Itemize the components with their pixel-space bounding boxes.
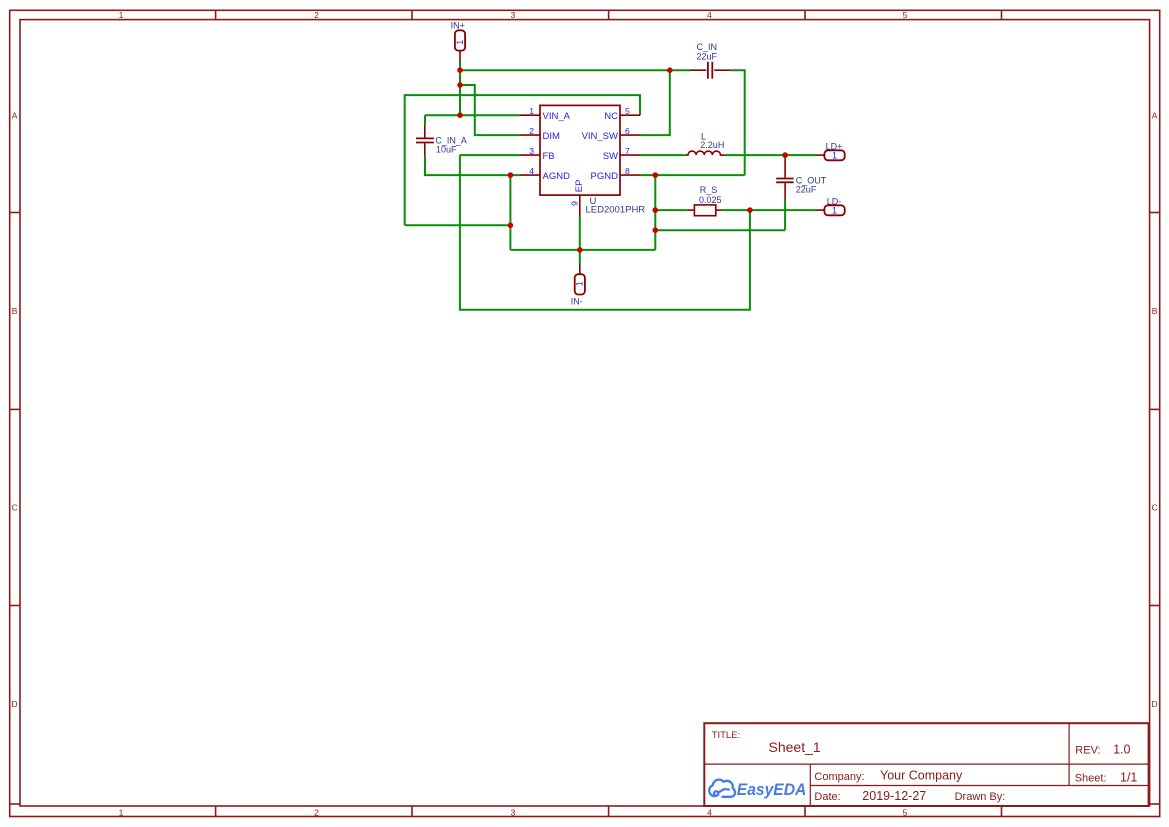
svg-text:22uF: 22uF xyxy=(697,52,718,62)
svg-text:2019-12-27: 2019-12-27 xyxy=(862,789,926,803)
svg-text:Sheet_1: Sheet_1 xyxy=(769,739,821,755)
svg-text:3: 3 xyxy=(529,146,534,156)
svg-text:9: 9 xyxy=(569,201,579,206)
svg-text:10uF: 10uF xyxy=(436,145,457,155)
svg-text:4: 4 xyxy=(529,166,534,176)
svg-text:Date:: Date: xyxy=(814,791,840,803)
svg-text:C: C xyxy=(1152,503,1158,513)
svg-text:1/1: 1/1 xyxy=(1120,770,1137,784)
svg-text:PGND: PGND xyxy=(591,171,619,182)
svg-text:5: 5 xyxy=(625,106,630,116)
svg-text:D: D xyxy=(1152,699,1158,709)
svg-text:VIN_SW: VIN_SW xyxy=(582,131,618,142)
svg-text:4: 4 xyxy=(707,807,712,817)
svg-text:REV:: REV: xyxy=(1075,745,1100,757)
svg-text:3: 3 xyxy=(511,10,516,20)
svg-text:1: 1 xyxy=(455,40,465,45)
svg-text:B: B xyxy=(12,306,18,316)
svg-text:4: 4 xyxy=(707,10,712,20)
svg-text:LED2001PHR: LED2001PHR xyxy=(586,205,646,216)
svg-text:1: 1 xyxy=(119,807,124,817)
svg-text:A: A xyxy=(12,111,18,121)
svg-text:DIM: DIM xyxy=(543,131,561,142)
svg-text:IN+: IN+ xyxy=(451,21,465,31)
svg-text:EP: EP xyxy=(574,180,585,193)
svg-text:AGND: AGND xyxy=(543,171,571,182)
svg-text:IN-: IN- xyxy=(571,297,583,307)
svg-text:Company:: Company: xyxy=(814,771,864,783)
svg-text:2: 2 xyxy=(314,10,319,20)
svg-text:SW: SW xyxy=(603,151,618,162)
svg-text:1: 1 xyxy=(832,151,837,161)
svg-text:VIN_A: VIN_A xyxy=(543,111,571,122)
svg-text:C: C xyxy=(12,503,18,513)
svg-text:2: 2 xyxy=(314,807,319,817)
svg-text:22uF: 22uF xyxy=(796,185,817,195)
svg-text:R_S: R_S xyxy=(700,185,718,195)
svg-text:8: 8 xyxy=(625,166,630,176)
svg-text:1: 1 xyxy=(832,206,837,216)
svg-text:0.025: 0.025 xyxy=(699,195,722,205)
svg-text:3: 3 xyxy=(511,807,516,817)
svg-text:B: B xyxy=(1152,306,1158,316)
svg-text:Sheet:: Sheet: xyxy=(1075,772,1107,784)
svg-text:D: D xyxy=(12,699,18,709)
svg-text:Your Company: Your Company xyxy=(880,769,963,783)
svg-text:EasyEDA: EasyEDA xyxy=(737,781,807,799)
svg-text:1: 1 xyxy=(119,10,124,20)
svg-text:5: 5 xyxy=(903,807,908,817)
svg-text:NC: NC xyxy=(604,111,618,122)
svg-text:7: 7 xyxy=(625,146,630,156)
svg-text:2: 2 xyxy=(529,126,534,136)
svg-text:5: 5 xyxy=(903,10,908,20)
svg-text:A: A xyxy=(1152,111,1158,121)
svg-text:1: 1 xyxy=(529,106,534,116)
svg-text:1.0: 1.0 xyxy=(1113,743,1130,757)
svg-text:FB: FB xyxy=(543,151,555,162)
svg-text:6: 6 xyxy=(625,126,630,136)
svg-text:1: 1 xyxy=(574,281,584,286)
svg-text:Drawn By:: Drawn By: xyxy=(955,791,1006,803)
svg-text:C_IN: C_IN xyxy=(697,42,718,52)
svg-text:TITLE:: TITLE: xyxy=(712,730,741,741)
svg-text:2.2uH: 2.2uH xyxy=(700,140,724,150)
